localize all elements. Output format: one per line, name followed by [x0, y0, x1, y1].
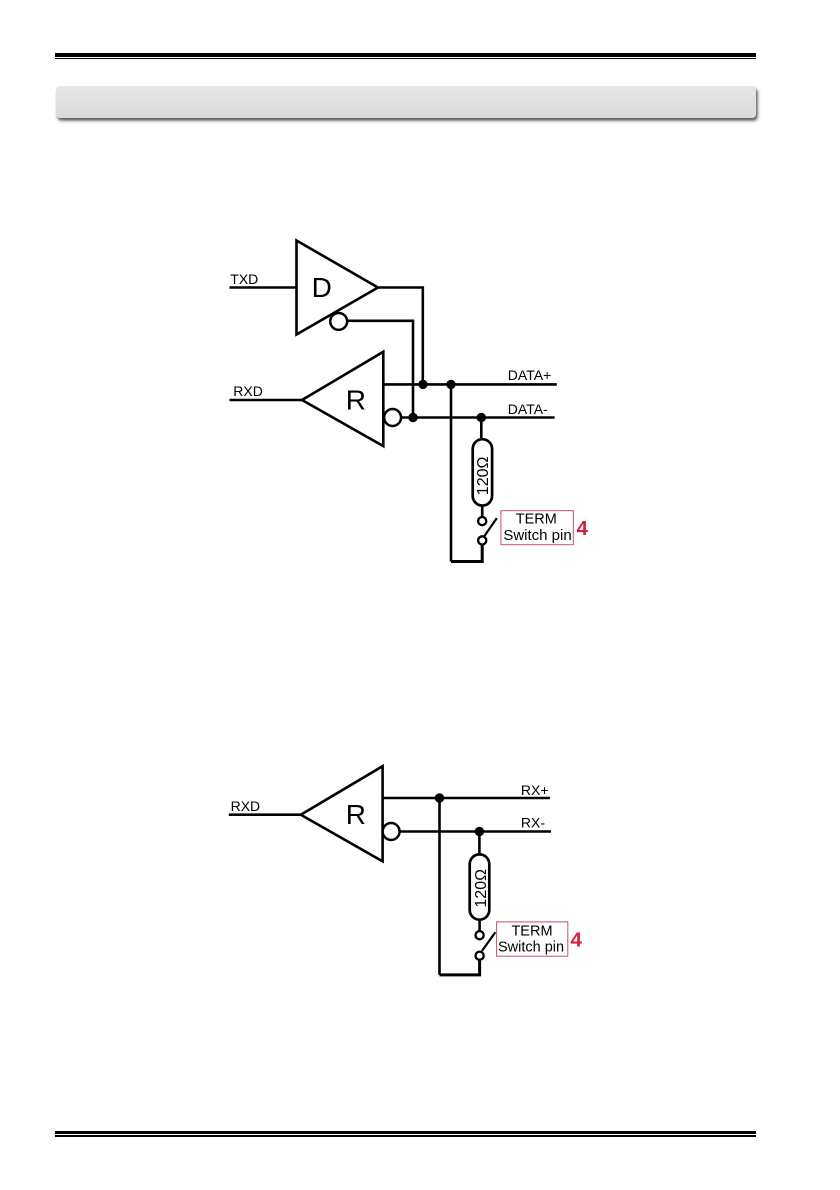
junction dot RX+ / termination: [435, 793, 444, 802]
switch SW1 upper terminal: [478, 517, 486, 525]
svg-text:DATA+: DATA+: [508, 367, 551, 383]
resistor R2 body (120 ohm): [470, 854, 490, 919]
switch SW2 lower terminal: [476, 952, 484, 960]
junction dot DATA+ / driver output: [418, 380, 427, 389]
svg-text:Switch pin: Switch pin: [498, 940, 564, 956]
wire RX- down to resistor (schematic 2): [478, 832, 481, 854]
top double rule: thin line: [55, 58, 756, 59]
wire DATA- line: [401, 416, 554, 419]
inversion bubble on driver output: [330, 313, 347, 330]
wire RXD input (schematic 2): [229, 813, 301, 816]
svg-text:R: R: [346, 799, 366, 830]
TERM switch pin callout box (schematic 2): [497, 922, 568, 956]
svg-text:TXD: TXD: [230, 271, 258, 287]
wire resistor to switch: [481, 507, 484, 517]
svg-text:120Ω: 120Ω: [473, 869, 490, 908]
svg-text:TERM: TERM: [516, 512, 557, 528]
svg-text:TERM: TERM: [511, 923, 552, 939]
wire RX+ line: [383, 797, 550, 800]
switch SW2 lever: [482, 932, 495, 951]
wire switch bottom to return corner (schematic 2): [440, 960, 480, 975]
wire termination return vertical from DATA+: [450, 384, 453, 561]
svg-text:DATA-: DATA-: [508, 401, 548, 417]
wire driver output to DATA+ junction: [378, 288, 423, 385]
inversion bubble on receiver input (schematic 1): [384, 409, 401, 426]
bottom double rule: thick line: [55, 1131, 756, 1135]
wire RX- line: [400, 830, 551, 833]
section heading banner (empty grey bar): [56, 86, 756, 119]
wire driver inverted output to DATA- junction: [348, 321, 413, 418]
junction dot DATA+ / termination: [446, 380, 455, 389]
switch SW1 lower terminal: [478, 536, 486, 544]
svg-text:4: 4: [577, 517, 589, 540]
svg-text:Switch pin: Switch pin: [503, 527, 571, 544]
switch SW1 lever: [484, 518, 497, 537]
svg-text:R: R: [346, 384, 366, 415]
wire switch bottom to return corner: [451, 545, 482, 562]
receiver R triangle (schematic 2): [301, 766, 383, 861]
wire DATA+ line: [383, 383, 557, 386]
driver D triangle: [297, 241, 379, 335]
svg-text:RXD: RXD: [231, 798, 261, 814]
svg-text:120Ω: 120Ω: [475, 457, 492, 496]
wire RXD input (schematic 1): [230, 399, 303, 402]
junction dot DATA- / resistor: [477, 413, 486, 422]
svg-text:4: 4: [571, 929, 583, 952]
svg-text:RX-: RX-: [521, 815, 545, 831]
wire termination return vertical from RX+: [438, 798, 441, 975]
junction dot DATA- / inverted output: [408, 413, 417, 422]
resistor R1 body (120 ohm): [473, 439, 492, 505]
wire TXD input: [230, 286, 297, 289]
bottom double rule: thin line: [55, 1135, 756, 1136]
junction dot RX- / resistor: [475, 827, 484, 836]
svg-text:RXD: RXD: [233, 383, 263, 399]
wire resistor to switch (schematic 2): [478, 921, 481, 931]
svg-text:D: D: [312, 272, 332, 303]
TERM switch pin callout box (schematic 1): [501, 511, 573, 545]
inversion bubble on receiver input (schematic 2): [383, 823, 400, 840]
svg-text:RX+: RX+: [521, 782, 549, 798]
receiver R triangle (schematic 1): [302, 352, 383, 446]
top double rule: thick line: [55, 53, 756, 56]
switch SW2 upper terminal: [476, 931, 484, 939]
wire DATA- down to resistor: [480, 418, 483, 439]
